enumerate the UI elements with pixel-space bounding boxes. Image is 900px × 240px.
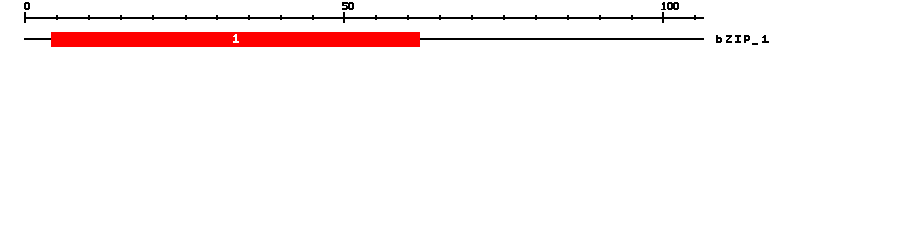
ruler major tick 100 <box>662 12 664 23</box>
ruler label 100 <box>661 2 679 10</box>
ruler label 50 <box>342 2 354 10</box>
ruler major tick 0 <box>24 12 26 23</box>
ruler minor ticks <box>56 15 696 20</box>
domain box label 1 (white) <box>233 34 239 43</box>
ruler major tick 50 <box>343 12 345 23</box>
domain name bZIP_1 <box>716 35 769 45</box>
sequence line <box>24 38 704 40</box>
ruler line <box>24 17 704 19</box>
domain box 1 (red) <box>51 32 420 47</box>
ruler label 0 <box>24 2 30 10</box>
